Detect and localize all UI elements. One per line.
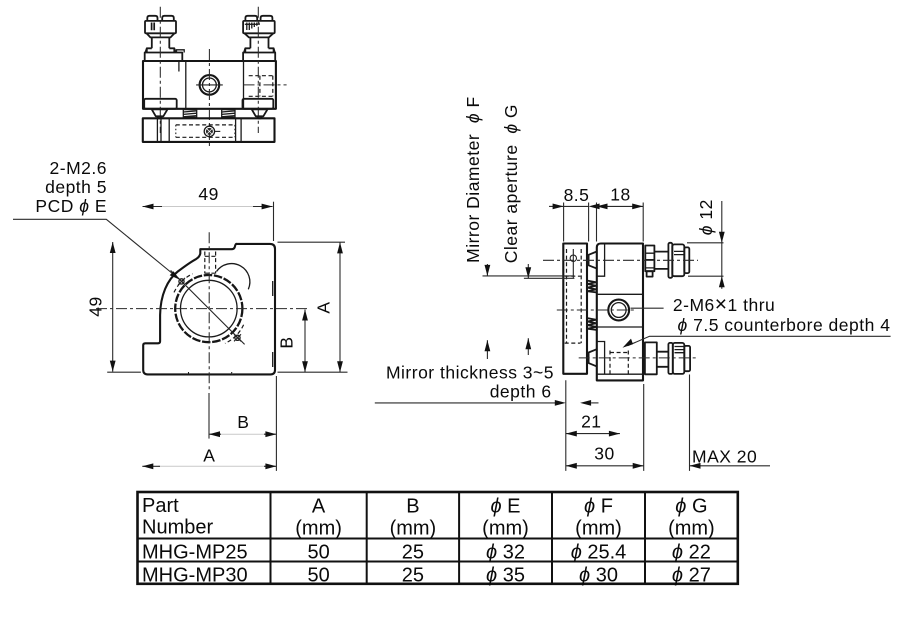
- bottom A dimension: [158, 465, 266, 467]
- PCD arc near upper-left hole: [174, 274, 193, 293]
- svg-text:Mirror thickness 3~5: Mirror thickness 3~5: [386, 363, 554, 383]
- dim 49v bottom arrow: [110, 361, 116, 372]
- svg-text:(mm): (mm): [668, 518, 715, 540]
- right spring: [222, 110, 235, 118]
- svg-text:MAX 20: MAX 20: [692, 447, 757, 467]
- lower spring: [587, 318, 596, 330]
- right knob cap: [243, 21, 275, 33]
- dimension 49 horizontal line: [160, 206, 255, 208]
- dim 8.5: [549, 205, 564, 207]
- top view right front tab: [243, 99, 274, 109]
- svg-text:ϕ G: ϕ G: [675, 496, 707, 518]
- top view hidden screw hole right section dashed: [249, 75, 275, 77]
- dimension 49 vertical line: [112, 242, 114, 372]
- body step upper: [597, 245, 605, 277]
- svg-text:MHG-MP30: MHG-MP30: [142, 564, 248, 586]
- left knob centerline: [159, 7, 161, 133]
- lower pivot cone: [589, 349, 597, 366]
- bottom plate center screw hole: [204, 126, 214, 136]
- right knob knurl marks: [247, 23, 259, 31]
- mirror outer rim circle: [175, 275, 242, 342]
- top view main body: [143, 61, 276, 109]
- dim phi12 vertical line: [721, 201, 723, 289]
- mirror thickness leader: [375, 402, 558, 404]
- hidden top screw hole dashed: [204, 252, 206, 274]
- table vertical lines: [271, 492, 646, 584]
- upper spring: [587, 281, 596, 293]
- extension line bottom-right A B: [278, 371, 348, 373]
- svg-text:ϕ 22: ϕ 22: [672, 542, 711, 564]
- svg-text:ϕ 7.5 counterbore depth 4: ϕ 7.5 counterbore depth 4: [678, 315, 891, 335]
- svg-text:Mirror Diameter ϕ F: Mirror Diameter ϕ F: [463, 96, 483, 263]
- left spring: [183, 110, 196, 118]
- M2.6 screw hole upper-left: [179, 279, 184, 284]
- side view main body: [597, 244, 643, 381]
- dim 21: [566, 433, 620, 435]
- dim 49v top arrow: [110, 242, 116, 253]
- bottom plate hidden slot dashed: [176, 124, 235, 126]
- top-right lobe boss arc: [217, 264, 250, 290]
- svg-text:50: 50: [307, 564, 329, 586]
- lower screw flange: [668, 343, 672, 374]
- front plate outline: [143, 244, 275, 375]
- phiF arrow line lower: [486, 340, 488, 359]
- leader arrowhead: [170, 271, 180, 279]
- bottom edge step ticks: [189, 372, 232, 374]
- svg-text:(mm): (mm): [575, 518, 622, 540]
- svg-text:(mm): (mm): [482, 518, 529, 540]
- middle hole centerline: [557, 309, 635, 311]
- lower screw knob: [673, 343, 685, 374]
- svg-text:8.5: 8.5: [564, 185, 590, 205]
- dim 49 right extension line: [273, 202, 275, 241]
- upper screw knob: [672, 244, 684, 276]
- mirror aperture circle: [181, 280, 238, 337]
- upper screw nut nub: [647, 271, 653, 276]
- body division upper: [597, 293, 643, 295]
- upper pivot cone: [589, 252, 597, 269]
- top view center hole outer: [200, 75, 220, 95]
- bottom right extension line: [275, 376, 277, 471]
- phiG arrow line upper: [527, 264, 529, 278]
- extension lines for 8.5 and 18: [564, 203, 644, 242]
- svg-text:18: 18: [610, 185, 630, 205]
- leader line for PCD label: [13, 219, 176, 276]
- dim 49v bottom extension: [107, 371, 141, 373]
- upper screw cap: [684, 247, 689, 273]
- svg-text:(mm): (mm): [390, 518, 437, 540]
- svg-text:A: A: [203, 446, 215, 466]
- PCD arc near lower-right hole: [225, 325, 244, 344]
- left foot cone: [152, 109, 168, 118]
- svg-text:ϕ F: ϕ F: [584, 496, 613, 518]
- top view center axis centerline: [208, 49, 210, 147]
- svg-text:ϕ 35: ϕ 35: [486, 564, 525, 586]
- right knob neck: [245, 33, 274, 37]
- counterbore circle outer: [608, 300, 629, 321]
- upper screw stem: [654, 252, 668, 269]
- svg-text:B: B: [237, 412, 249, 432]
- table outer border: [138, 492, 738, 584]
- svg-text:ϕ 30: ϕ 30: [579, 564, 618, 586]
- bottom center extension line: [208, 393, 210, 439]
- dim A right vertical line: [339, 242, 341, 372]
- svg-text:A: A: [314, 301, 334, 313]
- right knob base: [243, 53, 275, 62]
- body division lower: [597, 326, 643, 328]
- bottom plate screw tick: [215, 130, 220, 132]
- hidden counterbore lower dashed: [609, 351, 611, 375]
- svg-text:25: 25: [402, 542, 424, 564]
- top view bottom plate: [143, 118, 275, 142]
- svg-text:2-M2.6: 2-M2.6: [50, 158, 107, 178]
- right foot cone: [252, 109, 268, 118]
- bottom B dimension: [219, 433, 266, 435]
- left knob top bump right: [162, 16, 174, 21]
- left knob base: [145, 53, 183, 62]
- right edge tick upper: [272, 281, 274, 296]
- svg-text:(mm): (mm): [295, 518, 342, 540]
- left knob cap: [145, 21, 176, 33]
- left knob flare wings: [145, 48, 175, 52]
- counterbore circle inner: [611, 303, 626, 318]
- svg-text:Number: Number: [142, 517, 213, 539]
- svg-text:B: B: [406, 496, 419, 518]
- left knob stem: [152, 37, 170, 48]
- right knob stem: [250, 37, 268, 48]
- bottom plate inner vertical lines: [157, 118, 241, 142]
- extension verticals below side view: [566, 375, 690, 471]
- svg-text:ϕ 27: ϕ 27: [672, 564, 711, 586]
- body step lower: [597, 342, 643, 375]
- svg-text:PCD ϕ E: PCD ϕ E: [35, 196, 107, 216]
- svg-text:ϕ E: ϕ E: [490, 496, 520, 518]
- depth6 arrow: [580, 400, 591, 406]
- dim 18: [597, 205, 644, 207]
- top view left front tab: [144, 99, 177, 109]
- svg-text:B: B: [277, 336, 297, 348]
- mirror recess hidden dashed: [566, 249, 568, 343]
- dim 30: [566, 465, 644, 467]
- dim phi12 extension lines: [687, 242, 724, 244]
- right knob centerline: [257, 7, 259, 133]
- extension line top-right A: [278, 241, 346, 243]
- top view center hole horizontal centerline: [196, 84, 223, 86]
- svg-text:50: 50: [307, 542, 329, 564]
- upper screw flange: [668, 243, 672, 278]
- top view right section screw axis line: [244, 84, 287, 86]
- front view horizontal centerline: [96, 308, 308, 310]
- svg-text:MHG-MP25: MHG-MP25: [142, 542, 248, 564]
- lower screw centerline: [579, 357, 699, 359]
- right knob top bump right: [261, 16, 273, 21]
- svg-text:Part: Part: [142, 495, 179, 517]
- upper screw nut: [645, 246, 654, 272]
- left knob top bump left: [147, 16, 157, 21]
- dim 49 left arrow: [143, 204, 154, 210]
- pivot pin detail in plate: [572, 249, 574, 278]
- top view center hole inner: [203, 78, 217, 92]
- lower screw bushing: [645, 342, 657, 374]
- svg-text:A: A: [312, 496, 326, 518]
- svg-text:depth 5: depth 5: [45, 177, 107, 197]
- right knob top bump left: [245, 16, 257, 21]
- front view vertical centerline: [208, 232, 210, 389]
- M2.6 screw hole lower-right: [235, 335, 240, 340]
- top view body section line right: [243, 61, 245, 109]
- svg-text:25: 25: [402, 564, 424, 586]
- table horizontal lines: [138, 539, 738, 562]
- svg-text:21: 21: [581, 412, 601, 432]
- top view body section line left: [185, 61, 187, 109]
- phiF arrow line upper: [486, 264, 488, 276]
- svg-text:49: 49: [198, 184, 218, 204]
- lower screw cap: [684, 346, 690, 371]
- dim 49 right arrow: [262, 204, 273, 210]
- left knob neck: [147, 33, 175, 37]
- svg-text:ϕ 12: ϕ 12: [696, 199, 716, 235]
- phiG extension line: [524, 277, 575, 279]
- svg-text:ϕ 25.4: ϕ 25.4: [571, 542, 627, 564]
- svg-text:depth 6: depth 6: [490, 382, 552, 402]
- svg-text:ϕ 32: ϕ 32: [486, 542, 525, 564]
- phiF extension line: [483, 275, 575, 277]
- svg-text:2-M6×1 thru: 2-M6×1 thru: [673, 293, 775, 316]
- lower screw stem: [657, 352, 669, 367]
- dim B right vertical line: [304, 310, 306, 373]
- svg-text:49: 49: [86, 296, 106, 316]
- svg-text:30: 30: [594, 444, 614, 464]
- dim MAX 20: [690, 465, 771, 467]
- right knob flare wings: [244, 48, 275, 52]
- side view front mirror plate: [563, 244, 587, 374]
- phiG arrow line lower: [527, 338, 529, 355]
- left knob slot marks: [152, 23, 155, 31]
- right edge tick lower: [272, 352, 274, 367]
- diagonal PCD line through center: [171, 270, 245, 344]
- upper screw centerline: [543, 259, 698, 261]
- svg-text:Clear aperture ϕ G: Clear aperture ϕ G: [501, 104, 521, 263]
